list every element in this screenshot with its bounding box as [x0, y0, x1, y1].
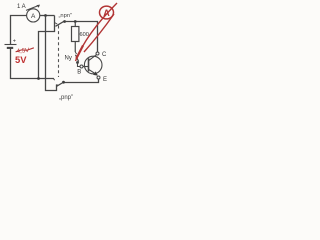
svg-text:A: A	[31, 13, 36, 20]
wire: emitter terminal down and left to pnp throw dot	[64, 79, 99, 83]
svg-text:C: C	[102, 52, 107, 58]
svg-text:+: +	[13, 39, 16, 45]
wire: ammeter to switch pole corner	[40, 15, 55, 17]
svg-text:A: A	[103, 8, 110, 18]
battery B1 long plate	[5, 44, 17, 46]
switch Ny lever open	[76, 55, 79, 62]
terminal B circle	[80, 65, 83, 68]
wire: bottom rail from battery minus	[11, 48, 55, 79]
svg-text:5V: 5V	[15, 55, 27, 66]
node: throw contact dot pnp	[62, 81, 65, 84]
node: junction dot on top wire	[44, 14, 47, 17]
bottom rail end tick	[54, 79, 55, 81]
svg-text:„npn”: „npn”	[59, 13, 73, 19]
transistor Q1 circle	[84, 56, 102, 74]
node: throw contact dot npn	[63, 20, 66, 23]
ammeter A1 circle	[27, 9, 40, 22]
transistor emitter lead with arrow	[89, 69, 98, 75]
resistor R1 600	[72, 27, 79, 42]
ammeter needle arrow	[26, 6, 38, 11]
svg-text:B: B	[77, 70, 81, 76]
node: dot below Ny switch	[76, 61, 79, 64]
background	[0, 0, 120, 104]
wire: resistor bottom to Ny switch contact	[74, 42, 76, 53]
annotation: second red stroke	[84, 14, 114, 52]
wire: Ny to base terminal	[78, 63, 81, 67]
svg-text:Ny: Ny	[65, 56, 72, 62]
svg-text:1 A: 1 A	[17, 4, 26, 10]
battery B1 short plate	[7, 47, 13, 49]
switch S1b pole hook	[57, 85, 59, 86]
wire: junction down to resistor top	[74, 22, 76, 27]
wire: base lead into transistor	[83, 66, 89, 68]
switch S1b lever	[57, 83, 63, 87]
switch S1a pole contact stub	[55, 23, 58, 25]
svg-text:„pnp”: „pnp”	[59, 95, 73, 101]
terminal C circle	[96, 52, 99, 55]
transistor collector lead	[89, 54, 97, 60]
annotation: red circle A	[100, 6, 114, 19]
annotation: red stroke thick lower part	[76, 46, 83, 59]
wire: battery + up to top-left corner and to ammeter	[11, 16, 27, 45]
wire: middle vertical from top junction down to bottom switch bracket	[46, 16, 57, 91]
switch Ny contact hook	[75, 52, 76, 54]
transistor base bar	[88, 58, 90, 71]
dashed mechanical link of ganged switch	[58, 26, 60, 78]
wire: bend down from top wire, left at y31, down to bottom wire	[39, 16, 55, 79]
node: junction dot above resistor	[74, 20, 77, 23]
annotation: red stroke from Ny to top right	[76, 3, 118, 61]
wire: top right rail from npn contact to collector drop	[65, 22, 98, 52]
svg-text:E: E	[103, 77, 107, 83]
annotation: crossed-out 4,5V	[15, 47, 34, 56]
terminal E circle	[97, 76, 100, 79]
switch S1a lever (npn position)	[56, 21, 65, 26]
node: junction dot bottom rail	[37, 77, 40, 80]
